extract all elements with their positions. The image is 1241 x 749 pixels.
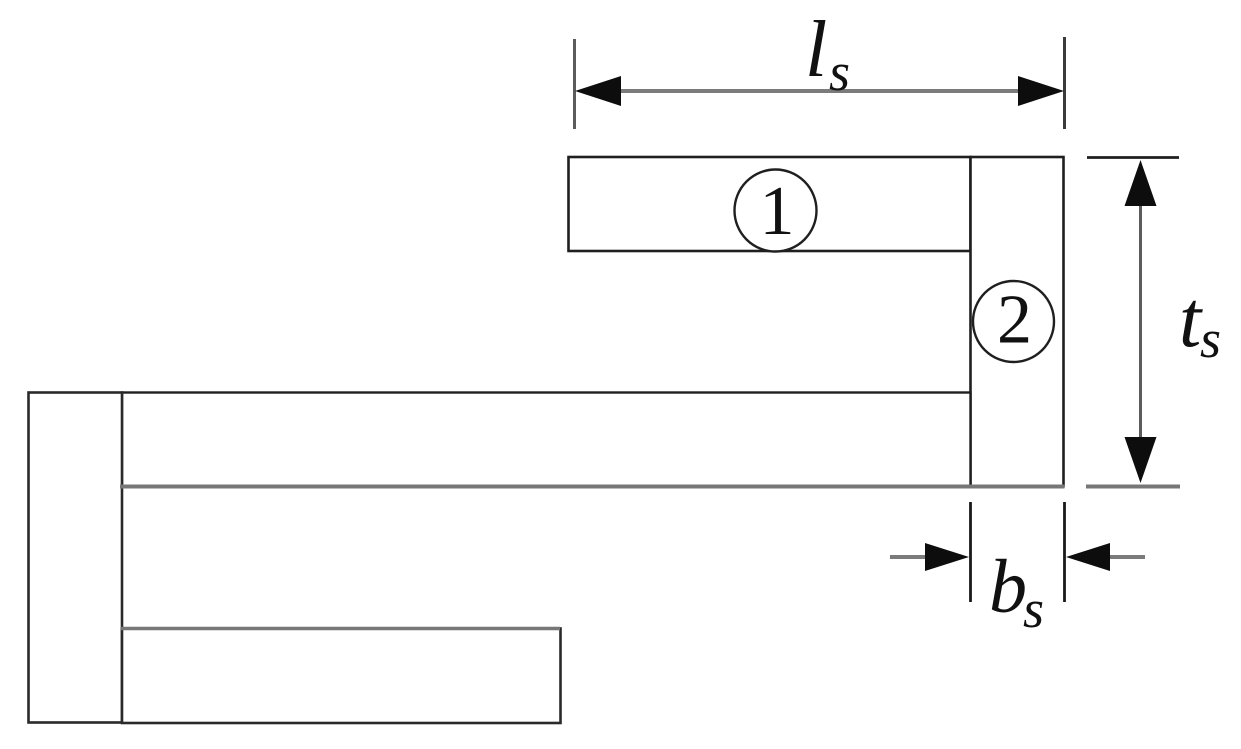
bs right arrow tail: [1108, 555, 1145, 559]
ls dimension left extension line: [573, 39, 576, 129]
svg-text:l: l: [805, 6, 827, 94]
bs dimension left extension line: [969, 502, 972, 602]
bottom beam: [122, 629, 561, 724]
svg-text:1: 1: [760, 173, 795, 250]
gray top edge of bottom beam: [121, 627, 560, 630]
vertical beam segment 2: [971, 157, 1064, 486]
svg-text:2: 2: [997, 282, 1032, 359]
bs right arrowhead: [1066, 543, 1110, 571]
ls right arrowhead: [1018, 76, 1064, 106]
balloon circle 1: [735, 170, 817, 252]
svg-text:s: s: [1200, 309, 1221, 369]
ts dimension top tick: [1087, 156, 1179, 159]
ts bottom arrowhead: [1125, 437, 1157, 483]
ls dimension line: [610, 89, 1030, 93]
ts dimension line: [1139, 200, 1142, 442]
svg-text:s: s: [1023, 579, 1044, 639]
ls left arrowhead: [575, 76, 621, 106]
left anchor block: [29, 393, 123, 723]
balloon circle 2: [973, 281, 1054, 362]
svg-text:b: b: [989, 545, 1027, 629]
top horizontal beam segment 1: [569, 157, 971, 251]
ls dimension right extension line: [1063, 37, 1066, 129]
long middle beam: [122, 393, 971, 487]
bs left arrowhead: [925, 543, 969, 571]
ts dimension bottom tick: [1086, 485, 1180, 489]
bs left arrow tail: [890, 555, 928, 559]
bs dimension right extension line: [1063, 502, 1066, 602]
ts top arrowhead: [1125, 160, 1157, 206]
gray bottom edge of middle beam: [120, 485, 1065, 489]
svg-text:s: s: [829, 42, 850, 102]
